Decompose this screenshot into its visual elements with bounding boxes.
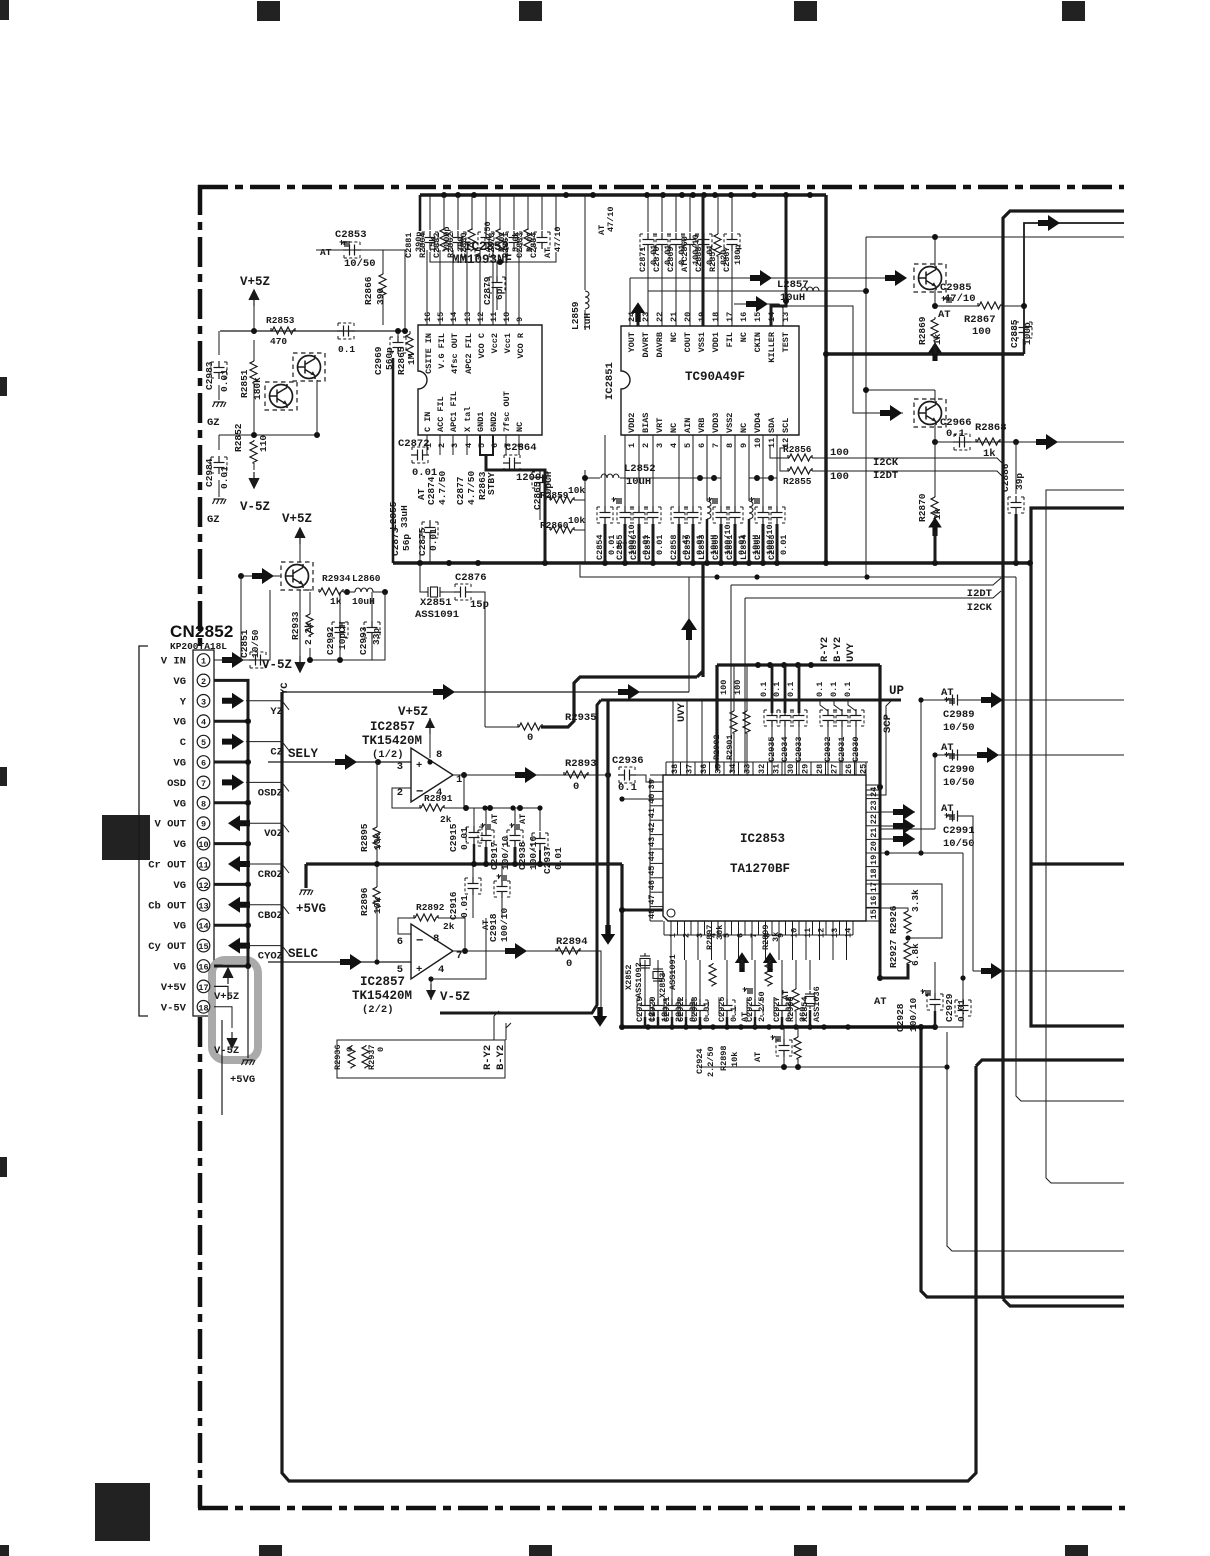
svg-text:C2864: C2864 xyxy=(505,442,537,454)
svg-text:4: 4 xyxy=(464,443,474,448)
svg-text:C2879: C2879 xyxy=(482,276,493,305)
svg-text:22: 22 xyxy=(655,312,665,322)
svg-text:GND1: GND1 xyxy=(476,412,486,432)
svg-text:IC2857: IC2857 xyxy=(360,975,405,989)
svg-text:14: 14 xyxy=(844,928,854,938)
svg-text:R2893: R2893 xyxy=(565,758,597,770)
svg-text:L2859: L2859 xyxy=(570,301,581,330)
svg-text:R2896: R2896 xyxy=(359,887,370,916)
svg-text:12: 12 xyxy=(817,928,827,938)
svg-text:15: 15 xyxy=(753,312,763,322)
svg-text:R2862: R2862 xyxy=(446,232,456,258)
svg-text:CZ: CZ xyxy=(270,747,283,759)
svg-text:VCO C: VCO C xyxy=(477,333,487,359)
svg-text:21: 21 xyxy=(869,828,879,838)
svg-text:4: 4 xyxy=(438,964,444,976)
svg-text:C: C xyxy=(180,737,187,749)
svg-text:L2860: L2860 xyxy=(352,573,381,584)
svg-text:4.7/50: 4.7/50 xyxy=(466,470,477,505)
svg-text:32: 32 xyxy=(757,764,767,774)
svg-text:0.1: 0.1 xyxy=(786,682,796,697)
svg-text:15: 15 xyxy=(198,942,208,952)
svg-text:ASS1092: ASS1092 xyxy=(634,962,644,998)
svg-text:VOZ: VOZ xyxy=(264,828,283,840)
svg-text:13: 13 xyxy=(463,312,473,322)
svg-text:27: 27 xyxy=(830,764,840,774)
svg-text:10k: 10k xyxy=(568,515,585,526)
svg-text:7: 7 xyxy=(711,443,721,448)
svg-text:1k: 1k xyxy=(932,508,943,520)
svg-text:DAVRT: DAVRT xyxy=(641,332,651,358)
svg-text:(1/2): (1/2) xyxy=(372,749,404,761)
svg-text:AT: AT xyxy=(320,247,332,258)
svg-text:C2925: C2925 xyxy=(717,996,727,1022)
svg-text:R2933: R2933 xyxy=(290,611,301,640)
svg-text:29: 29 xyxy=(801,764,811,774)
svg-text:R2895: R2895 xyxy=(359,823,370,852)
svg-text:0.1: 0.1 xyxy=(843,682,853,697)
svg-text:V+5Z: V+5Z xyxy=(240,275,270,289)
svg-text:10: 10 xyxy=(790,928,800,938)
svg-text:AT: AT xyxy=(416,488,427,500)
svg-text:4: 4 xyxy=(201,718,206,728)
svg-text:AT: AT xyxy=(941,742,954,754)
svg-text:47/10: 47/10 xyxy=(553,226,563,252)
svg-text:C2920: C2920 xyxy=(648,996,658,1022)
svg-text:3: 3 xyxy=(450,443,460,448)
svg-text:6: 6 xyxy=(697,443,707,448)
svg-text:0.1: 0.1 xyxy=(618,782,637,794)
svg-text:C2872: C2872 xyxy=(398,438,430,450)
svg-text:R2864: R2864 xyxy=(418,232,428,258)
svg-text:VG: VG xyxy=(173,758,186,770)
svg-text:C2915: C2915 xyxy=(448,823,459,852)
svg-text:R2936: R2936 xyxy=(333,1044,343,1070)
svg-text:C2937: C2937 xyxy=(542,845,553,874)
svg-text:15: 15 xyxy=(436,312,446,322)
svg-text:28: 28 xyxy=(815,764,825,774)
svg-text:R2856: R2856 xyxy=(783,444,812,455)
svg-text:10: 10 xyxy=(198,840,208,850)
svg-text:39: 39 xyxy=(647,779,657,789)
svg-text:36: 36 xyxy=(699,764,709,774)
svg-text:X2851: X2851 xyxy=(420,597,452,609)
svg-text:L2853: L2853 xyxy=(697,534,707,560)
svg-text:C2919: C2919 xyxy=(635,996,645,1022)
svg-text:56p: 56p xyxy=(401,534,412,551)
svg-text:2: 2 xyxy=(397,787,403,799)
svg-text:R2853: R2853 xyxy=(266,315,295,326)
svg-text:R2867: R2867 xyxy=(964,314,996,326)
svg-text:C2874: C2874 xyxy=(426,476,437,505)
svg-text:C2917: C2917 xyxy=(489,841,500,870)
svg-text:OSD: OSD xyxy=(167,778,186,790)
svg-text:AT: AT xyxy=(941,687,954,699)
svg-text:IC2853: IC2853 xyxy=(740,832,785,846)
svg-text:VDD2: VDD2 xyxy=(627,413,637,433)
svg-text:7fsc OUT: 7fsc OUT xyxy=(502,391,512,432)
svg-text:14: 14 xyxy=(449,312,459,322)
svg-text:VRB: VRB xyxy=(697,418,707,433)
svg-text:R2927: R2927 xyxy=(888,939,899,968)
svg-text:16: 16 xyxy=(198,963,208,973)
svg-text:SELY: SELY xyxy=(288,747,319,761)
svg-text:SCP: SCP xyxy=(882,714,894,733)
svg-text:0.1: 0.1 xyxy=(338,344,355,355)
svg-text:VG: VG xyxy=(173,839,186,851)
svg-text:5: 5 xyxy=(201,738,206,748)
svg-text:(2/2): (2/2) xyxy=(362,1004,394,1016)
svg-text:41: 41 xyxy=(647,808,657,818)
svg-text:10: 10 xyxy=(502,312,512,322)
svg-text:C2916: C2916 xyxy=(448,891,459,920)
svg-text:+5VG: +5VG xyxy=(296,902,326,916)
svg-text:0: 0 xyxy=(527,732,533,744)
svg-text:2: 2 xyxy=(437,443,447,448)
svg-text:10pCH: 10pCH xyxy=(337,621,348,650)
svg-text:0.01: 0.01 xyxy=(779,535,789,555)
svg-text:C2936: C2936 xyxy=(612,755,644,767)
svg-text:13: 13 xyxy=(198,901,208,911)
svg-text:Cy OUT: Cy OUT xyxy=(148,941,186,953)
svg-text:GZ: GZ xyxy=(207,417,220,429)
svg-text:NC: NC xyxy=(515,422,525,432)
svg-text:R2851: R2851 xyxy=(239,369,250,398)
svg-text:ACC FIL: ACC FIL xyxy=(436,396,446,432)
svg-text:39p: 39p xyxy=(1014,473,1025,490)
svg-text:0.01: 0.01 xyxy=(702,1002,712,1022)
svg-text:C2993: C2993 xyxy=(358,626,369,655)
svg-text:17: 17 xyxy=(725,312,735,322)
svg-text:3k: 3k xyxy=(771,932,781,942)
svg-text:0.01: 0.01 xyxy=(219,369,230,392)
svg-text:R2869: R2869 xyxy=(917,316,928,345)
svg-text:5: 5 xyxy=(683,443,693,448)
svg-text:100: 100 xyxy=(719,680,729,695)
svg-text:100: 100 xyxy=(972,326,991,338)
svg-text:CN2852: CN2852 xyxy=(170,622,234,641)
svg-text:17: 17 xyxy=(198,983,208,993)
svg-text:8: 8 xyxy=(433,933,439,945)
svg-text:IC2851: IC2851 xyxy=(604,362,616,400)
svg-text:TK15420M: TK15420M xyxy=(352,989,412,1003)
svg-text:C2886: C2886 xyxy=(1000,463,1011,492)
svg-text:UVY: UVY xyxy=(676,702,688,722)
svg-text:C2991: C2991 xyxy=(943,825,975,837)
svg-text:X2854: X2854 xyxy=(800,996,810,1022)
svg-text:C2928: C2928 xyxy=(895,1003,906,1032)
svg-text:I2DT: I2DT xyxy=(873,470,898,482)
svg-text:11: 11 xyxy=(803,928,813,938)
svg-text:R2868: R2868 xyxy=(975,422,1007,434)
svg-text:R2934: R2934 xyxy=(322,573,351,584)
svg-text:Cr OUT: Cr OUT xyxy=(148,860,186,872)
svg-text:10k: 10k xyxy=(568,485,585,496)
svg-text:L2857: L2857 xyxy=(777,279,809,291)
svg-text:45: 45 xyxy=(647,866,657,876)
svg-text:SELC: SELC xyxy=(288,947,319,961)
svg-text:7: 7 xyxy=(749,933,759,938)
svg-text:43: 43 xyxy=(647,837,657,847)
svg-text:110: 110 xyxy=(258,435,269,452)
svg-text:470: 470 xyxy=(270,336,287,347)
svg-text:CROZ: CROZ xyxy=(258,869,283,881)
svg-text:23: 23 xyxy=(869,800,879,810)
svg-text:20: 20 xyxy=(869,841,879,851)
svg-text:C2983: C2983 xyxy=(204,361,215,390)
svg-text:VG: VG xyxy=(173,798,186,810)
svg-text:2.2/50: 2.2/50 xyxy=(706,1046,716,1077)
svg-text:4: 4 xyxy=(669,443,679,448)
svg-text:44: 44 xyxy=(647,851,657,861)
svg-text:13: 13 xyxy=(830,928,840,938)
svg-text:10uH: 10uH xyxy=(780,292,805,304)
svg-text:390: 390 xyxy=(375,288,386,305)
svg-text:R2926: R2926 xyxy=(888,905,899,934)
svg-text:33p: 33p xyxy=(371,628,382,645)
svg-text:C2875: C2875 xyxy=(417,527,428,556)
svg-text:2k: 2k xyxy=(440,814,452,825)
svg-text:6: 6 xyxy=(736,933,746,938)
svg-text:R2855: R2855 xyxy=(783,476,812,487)
svg-text:180p: 180p xyxy=(733,245,743,265)
svg-text:V+5Z: V+5Z xyxy=(214,991,239,1003)
svg-text:6.8k: 6.8k xyxy=(910,943,921,966)
svg-text:10/50: 10/50 xyxy=(943,722,975,734)
svg-text:C2990: C2990 xyxy=(943,764,975,776)
svg-text:0.1: 0.1 xyxy=(759,682,769,697)
svg-text:C2876: C2876 xyxy=(455,572,487,584)
svg-text:V-5Z: V-5Z xyxy=(262,658,292,672)
svg-text:46: 46 xyxy=(647,880,657,890)
svg-text:19: 19 xyxy=(869,855,879,865)
svg-text:0.01: 0.01 xyxy=(655,535,665,555)
svg-text:2k: 2k xyxy=(443,921,455,932)
svg-text:SDA: SDA xyxy=(767,417,777,433)
svg-text:1k: 1k xyxy=(983,448,996,460)
svg-text:0.1: 0.1 xyxy=(829,682,839,697)
svg-text:Y: Y xyxy=(180,696,187,708)
svg-text:COUT: COUT xyxy=(683,332,693,352)
svg-text:+: + xyxy=(416,760,422,772)
svg-text:21: 21 xyxy=(669,312,679,322)
svg-text:3: 3 xyxy=(695,933,705,938)
svg-text:YC: YC xyxy=(279,682,291,695)
svg-text:15p: 15p xyxy=(470,599,489,611)
svg-text:18: 18 xyxy=(711,312,721,322)
svg-text:18: 18 xyxy=(198,1003,208,1013)
svg-text:C2938: C2938 xyxy=(517,841,528,870)
svg-text:1M: 1M xyxy=(406,353,417,365)
svg-text:11: 11 xyxy=(767,438,777,448)
svg-text:0.01: 0.01 xyxy=(459,895,470,918)
svg-text:12: 12 xyxy=(476,312,486,322)
svg-text:L2852: L2852 xyxy=(624,463,656,475)
svg-text:ASS1091: ASS1091 xyxy=(668,954,678,990)
svg-text:6: 6 xyxy=(490,443,500,448)
svg-text:100: 100 xyxy=(830,447,849,459)
svg-text:ASS1091: ASS1091 xyxy=(415,609,459,621)
svg-text:+: + xyxy=(416,964,422,976)
svg-text:R2892: R2892 xyxy=(416,902,445,913)
svg-text:L2855: L2855 xyxy=(388,501,399,530)
svg-text:V+5Z: V+5Z xyxy=(398,705,428,719)
svg-text:X tal: X tal xyxy=(463,406,473,432)
svg-text:2: 2 xyxy=(641,443,651,448)
svg-text:20: 20 xyxy=(683,312,693,322)
svg-text:V-5Z: V-5Z xyxy=(214,1045,239,1057)
svg-text:14: 14 xyxy=(198,922,208,932)
svg-text:2: 2 xyxy=(201,677,206,687)
svg-text:10k: 10k xyxy=(730,1052,740,1067)
svg-text:NC: NC xyxy=(739,332,749,342)
svg-text:AT: AT xyxy=(617,541,627,551)
svg-text:C2984: C2984 xyxy=(204,458,215,487)
svg-text:AT: AT xyxy=(781,990,791,1000)
svg-text:1: 1 xyxy=(627,443,637,448)
svg-text:R-Y2: R-Y2 xyxy=(819,637,831,662)
svg-text:26: 26 xyxy=(844,764,854,774)
svg-text:23: 23 xyxy=(641,312,651,322)
svg-text:5: 5 xyxy=(477,443,487,448)
svg-text:7: 7 xyxy=(456,950,462,962)
svg-text:2.2/50: 2.2/50 xyxy=(757,991,767,1022)
svg-text:CYOZ: CYOZ xyxy=(258,951,283,963)
svg-text:IC2857: IC2857 xyxy=(370,720,415,734)
svg-text:C2929: C2929 xyxy=(944,993,955,1022)
svg-text:3: 3 xyxy=(397,761,403,773)
svg-text:38: 38 xyxy=(670,764,680,774)
svg-text:C2881: C2881 xyxy=(404,232,414,258)
svg-text:2: 2 xyxy=(682,933,692,938)
svg-text:BIAS: BIAS xyxy=(641,413,651,433)
svg-text:1k: 1k xyxy=(932,333,943,345)
svg-text:V OUT: V OUT xyxy=(154,819,186,831)
svg-text:V-5Z: V-5Z xyxy=(440,990,470,1004)
svg-text:−: − xyxy=(416,934,424,948)
svg-text:B-Y2: B-Y2 xyxy=(832,637,844,662)
svg-text:R2852: R2852 xyxy=(233,423,244,452)
svg-text:2.2k: 2.2k xyxy=(303,622,314,645)
svg-text:3: 3 xyxy=(655,443,665,448)
svg-text:3: 3 xyxy=(201,697,206,707)
svg-text:V-5Z: V-5Z xyxy=(240,500,270,514)
svg-text:8: 8 xyxy=(436,749,442,761)
svg-text:8: 8 xyxy=(201,799,206,809)
svg-text:100: 100 xyxy=(830,471,849,483)
svg-text:25: 25 xyxy=(859,764,869,774)
svg-text:VCO R: VCO R xyxy=(516,332,526,358)
svg-text:SCL: SCL xyxy=(781,418,791,433)
svg-text:10/50: 10/50 xyxy=(250,629,261,658)
svg-text:GZ: GZ xyxy=(207,514,220,526)
svg-text:1uH: 1uH xyxy=(582,313,593,330)
svg-text:VSS2: VSS2 xyxy=(725,413,735,433)
svg-text:47/10: 47/10 xyxy=(606,206,616,232)
svg-text:AT: AT xyxy=(740,1012,750,1022)
svg-text:+5VG: +5VG xyxy=(230,1074,255,1086)
svg-text:YOUT: YOUT xyxy=(627,332,637,352)
svg-text:I2CK: I2CK xyxy=(967,602,993,614)
svg-text:VDD4: VDD4 xyxy=(753,413,763,433)
svg-text:37: 37 xyxy=(685,764,695,774)
svg-text:16: 16 xyxy=(423,312,433,322)
svg-text:VG: VG xyxy=(173,962,186,974)
svg-text:I2DT: I2DT xyxy=(967,588,992,600)
svg-text:16: 16 xyxy=(869,896,879,906)
svg-text:AT: AT xyxy=(874,996,887,1008)
svg-text:10/50: 10/50 xyxy=(344,258,376,270)
svg-text:42: 42 xyxy=(647,822,657,832)
svg-text:APC1 FIL: APC1 FIL xyxy=(449,391,459,432)
svg-text:C2989: C2989 xyxy=(943,709,975,721)
svg-text:X2852: X2852 xyxy=(624,964,634,990)
svg-text:6: 6 xyxy=(201,759,206,769)
svg-text:100/10: 100/10 xyxy=(499,907,510,942)
svg-text:R-Y2: R-Y2 xyxy=(482,1045,494,1070)
svg-text:VG: VG xyxy=(173,676,186,688)
svg-text:CBOZ: CBOZ xyxy=(258,910,283,922)
svg-text:4.7/50: 4.7/50 xyxy=(437,470,448,505)
svg-text:DAVRB: DAVRB xyxy=(655,332,665,358)
svg-text:TK15420M: TK15420M xyxy=(362,734,422,748)
svg-text:30: 30 xyxy=(786,764,796,774)
svg-text:TC90A49F: TC90A49F xyxy=(685,370,745,384)
svg-text:0.1: 0.1 xyxy=(729,1007,739,1022)
svg-text:C2921: C2921 xyxy=(662,996,672,1022)
svg-text:−: − xyxy=(416,785,424,799)
svg-text:R2891: R2891 xyxy=(424,793,453,804)
svg-text:AT: AT xyxy=(518,814,528,824)
svg-text:C2922: C2922 xyxy=(676,996,686,1022)
svg-text:100/10: 100/10 xyxy=(908,997,919,1032)
svg-text:C2873: C2873 xyxy=(390,527,401,556)
svg-text:C2969: C2969 xyxy=(373,346,384,375)
svg-text:L2854: L2854 xyxy=(739,534,749,560)
svg-text:NC: NC xyxy=(669,423,679,433)
svg-text:8: 8 xyxy=(725,443,735,448)
svg-text:R2870: R2870 xyxy=(917,493,928,522)
svg-text:X2853: X2853 xyxy=(658,972,668,998)
svg-text:0: 0 xyxy=(345,1047,355,1052)
svg-text:NC: NC xyxy=(669,332,679,342)
svg-text:YZ: YZ xyxy=(270,706,283,718)
svg-text:15: 15 xyxy=(869,909,879,919)
svg-text:C2885: C2885 xyxy=(1009,319,1020,348)
svg-text:STBY: STBY xyxy=(486,472,497,495)
svg-text:KILLER: KILLER xyxy=(767,331,777,363)
svg-text:GND2: GND2 xyxy=(489,412,499,432)
svg-text:AIN: AIN xyxy=(683,418,693,433)
svg-text:R2894: R2894 xyxy=(556,936,588,948)
svg-text:V IN: V IN xyxy=(161,656,186,668)
svg-text:6: 6 xyxy=(397,936,403,948)
svg-text:R2899: R2899 xyxy=(761,924,771,950)
svg-text:11: 11 xyxy=(198,861,208,871)
svg-text:22: 22 xyxy=(869,814,879,824)
svg-text:VDD3: VDD3 xyxy=(711,413,721,433)
svg-text:R2935: R2935 xyxy=(565,712,597,724)
svg-text:AT: AT xyxy=(543,248,553,258)
svg-text:0.01: 0.01 xyxy=(553,847,564,870)
svg-text:VG: VG xyxy=(173,717,186,729)
svg-text:0.1: 0.1 xyxy=(815,682,825,697)
svg-text:FIL: FIL xyxy=(725,332,735,347)
svg-text:CSITE IN: CSITE IN xyxy=(424,333,434,374)
svg-text:TA1270BF: TA1270BF xyxy=(730,862,790,876)
svg-text:ASS1036: ASS1036 xyxy=(812,986,822,1022)
svg-text:16: 16 xyxy=(739,312,749,322)
